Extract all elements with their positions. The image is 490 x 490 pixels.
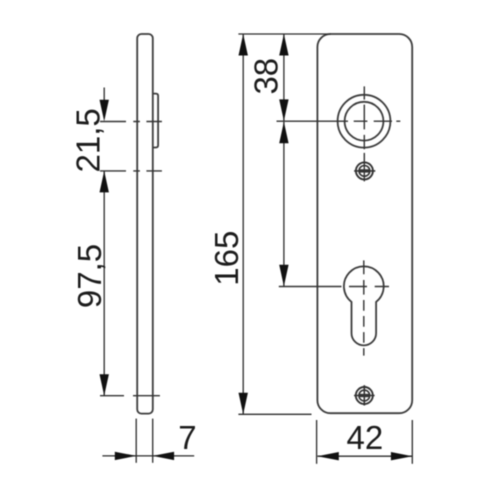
svg-text:165: 165	[208, 231, 245, 286]
dimension handle-to-cylinder (unlabeled)	[279, 122, 288, 286]
side view collar bump	[153, 94, 158, 148]
svg-text:97,5: 97,5	[71, 244, 108, 308]
dimension 7	[102, 419, 194, 463]
euro profile cylinder hole	[344, 266, 384, 345]
dimension 97,5	[100, 171, 109, 396]
front view plate outline	[317, 34, 412, 413]
dimension 21,5	[100, 88, 109, 122]
handle hole outer circle	[338, 95, 391, 148]
svg-text:7: 7	[178, 419, 196, 456]
centerline vertical cylinder hole	[363, 260, 365, 355]
centerline horizontal cylinder hole	[279, 286, 389, 288]
screw S2	[354, 385, 375, 405]
svg-text:21,5: 21,5	[70, 108, 107, 172]
center lines	[100, 86, 400, 395]
dimension 38	[279, 34, 288, 121]
dimension 165	[238, 34, 331, 414]
dimension 42	[317, 420, 413, 464]
centerline horizontal handle hole	[277, 120, 401, 122]
centerline vertical handle hole + screw S1	[363, 86, 365, 181]
handle hole inner circle	[345, 102, 384, 141]
side view dashed line at screw S1 height	[100, 170, 162, 172]
screw S1	[354, 162, 375, 179]
extension line top	[238, 33, 331, 35]
extension line bottom	[238, 413, 311, 415]
side view plate outline	[137, 34, 153, 414]
svg-text:38: 38	[248, 58, 285, 95]
side view dashed line at screw S2 height	[100, 395, 160, 397]
side view dashed line at handle height	[100, 121, 162, 123]
svg-text:42: 42	[347, 419, 384, 456]
